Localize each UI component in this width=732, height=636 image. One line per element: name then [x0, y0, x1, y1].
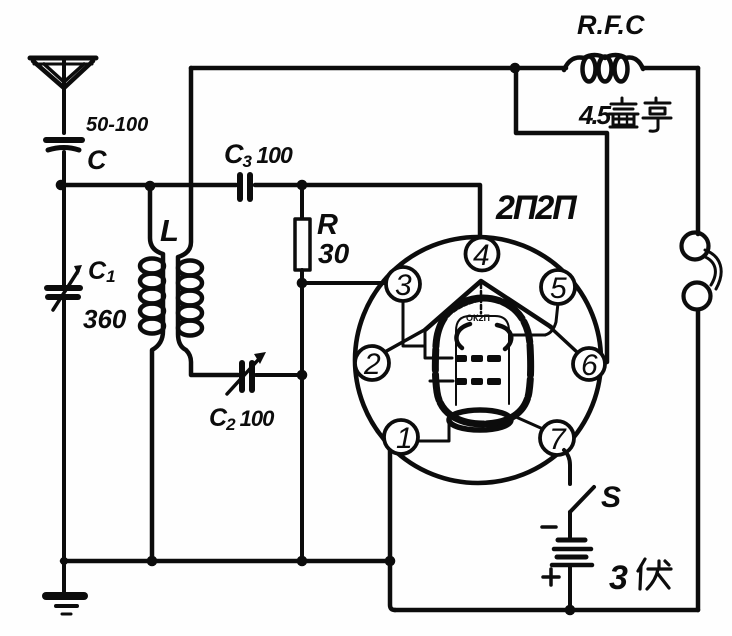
- tube grid row 1: [455, 355, 501, 362]
- node dot coil-bottom: [147, 556, 158, 567]
- battery minus sign: [542, 525, 556, 529]
- wire pin1 down: [390, 451, 395, 610]
- wire switch to battery: [568, 512, 572, 538]
- svg-text:4.5: 4.5: [578, 100, 612, 130]
- capacitor C 50-100: [46, 140, 82, 185]
- RF choke RFC: [564, 55, 698, 82]
- svg-text:30: 30: [318, 238, 350, 269]
- pin 4: [466, 238, 499, 273]
- tube internal pin2 lead: [383, 329, 426, 353]
- tube internal grid row2 stub: [430, 380, 453, 383]
- node dot antenna-wire: [56, 180, 67, 191]
- label 4.5 millihenry: [578, 98, 671, 131]
- inductor L primary winding: [140, 186, 164, 561]
- ground symbol: [46, 561, 84, 614]
- tube internal pin5 lead: [545, 303, 558, 335]
- wire top-node step to pin6: [516, 68, 607, 362]
- tube internal chevron: [425, 281, 551, 330]
- node dot battery-bottom: [565, 605, 576, 616]
- tube base ellipse: [449, 410, 511, 430]
- node dot top-wire: [510, 63, 521, 74]
- inductor L tickler winding: [178, 68, 238, 375]
- node dot R-top: [297, 180, 308, 191]
- svg-text:2: 2: [363, 348, 381, 381]
- pin 7: [540, 421, 574, 456]
- bottom return wire: [395, 608, 698, 613]
- tube cathode hook left: [456, 324, 470, 348]
- wire R-bottom down: [300, 283, 304, 561]
- ground bus wire: [62, 559, 390, 564]
- wire right side up to phones: [696, 308, 701, 610]
- tube internal pin3 lead: [403, 300, 424, 346]
- node corner ground: [60, 557, 68, 565]
- svg-text:R.F.C: R.F.C: [577, 10, 645, 40]
- node dot bus-end: [385, 556, 396, 567]
- capacitor C3: [240, 175, 302, 199]
- variable capacitor C1: [47, 185, 82, 561]
- pin 2: [355, 346, 389, 381]
- node dot C-branch-bottom: [297, 556, 308, 567]
- svg-text:C1: C1: [88, 257, 116, 286]
- svg-text:5: 5: [550, 272, 567, 305]
- tube grid row 2: [455, 378, 501, 385]
- wire top plate run: [191, 66, 566, 71]
- svg-text:50-100: 50-100: [86, 114, 148, 136]
- tube internal pin1 lead: [417, 416, 449, 441]
- svg-text:C: C: [87, 145, 107, 175]
- node dot C2-right: [297, 370, 308, 381]
- tube internal anode stub: [512, 334, 545, 337]
- pin 1: [384, 420, 418, 455]
- battery B1: [552, 540, 592, 565]
- resistor R: [295, 189, 310, 283]
- tube cathode hook right: [497, 325, 511, 349]
- wire R-bottom to pin3: [302, 281, 386, 285]
- svg-text:1: 1: [396, 422, 413, 455]
- wire phones up to top: [696, 68, 701, 234]
- svg-text:3: 3: [609, 559, 628, 597]
- svg-text:C3 100: C3 100: [224, 139, 293, 171]
- svg-text:360: 360: [83, 304, 127, 334]
- antenna: [30, 58, 96, 133]
- pin 3: [386, 267, 420, 302]
- wire C3 to pin4 corner: [302, 185, 480, 241]
- svg-text:L: L: [160, 213, 179, 248]
- switch S: [570, 487, 594, 512]
- tube internal apex stub: [480, 284, 483, 313]
- tube inner electrode outline: [456, 316, 509, 405]
- svg-text:6: 6: [581, 349, 598, 382]
- node dot R-bottom: [297, 278, 308, 289]
- battery plus sign: [543, 569, 559, 585]
- tube inner bulb outline: [435, 298, 530, 424]
- svg-text:R: R: [317, 209, 338, 241]
- label 3 volts: [609, 559, 671, 597]
- svg-text:4: 4: [473, 239, 490, 272]
- svg-text:ОК2П: ОК2П: [466, 313, 490, 323]
- pin 6: [573, 348, 605, 382]
- tube internal pin7 lead: [516, 417, 543, 429]
- svg-text:C2 100: C2 100: [209, 404, 275, 434]
- wire antenna node horizontal: [61, 183, 236, 188]
- tube envelope circle 2P2P: [355, 237, 601, 483]
- headphones: [682, 233, 722, 310]
- tube internal pin6 lead: [550, 327, 578, 353]
- pin 5: [541, 270, 575, 305]
- svg-text:2П2П: 2П2П: [495, 189, 578, 227]
- variable capacitor C2: [227, 352, 302, 394]
- tube internal grid lead step: [425, 331, 452, 358]
- wire battery to bottom: [568, 565, 572, 610]
- wire pin7 to switch: [564, 450, 570, 484]
- svg-text:S: S: [601, 481, 621, 514]
- svg-text:3: 3: [395, 269, 412, 302]
- node dot coil-top: [145, 181, 156, 192]
